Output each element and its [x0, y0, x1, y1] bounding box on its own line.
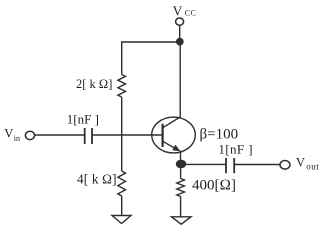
wire emitter node to C2: [181, 163, 226, 165]
ground left: [112, 216, 131, 224]
node Vout terminal: [280, 161, 290, 170]
node Vin terminal: [25, 131, 34, 139]
wire C1 to transistor base: [92, 134, 163, 136]
svg-text:in: in: [14, 134, 20, 143]
label 1[nF] input: [67, 111, 99, 126]
resistor 4k zigzag: [118, 171, 126, 196]
wire top rail down to R1: [121, 41, 123, 74]
wire R2 bottom to ground: [121, 196, 123, 216]
svg-text:out: out: [306, 161, 319, 171]
wire top rail horizontal: [122, 41, 180, 43]
label Vout: [296, 155, 319, 171]
svg-text:V: V: [296, 155, 305, 169]
transistor Q1 collector stroke: [163, 117, 181, 128]
svg-text:CC: CC: [185, 9, 196, 18]
label 400[Ohm]: [192, 178, 236, 194]
wire R3 to ground: [180, 197, 182, 217]
junction dot at VCC rail: [177, 38, 183, 44]
wire emitter down to node: [180, 151, 182, 165]
resistor 2k zigzag: [118, 75, 126, 98]
resistor 400 ohm zigzag: [177, 179, 185, 197]
capacitor C2 output 1nF: [226, 158, 234, 173]
wire C2 to Vout terminal: [234, 164, 280, 166]
transistor Q1 emitter stroke with arrow: [163, 141, 179, 150]
ground right: [172, 217, 192, 224]
wire R1 bottom to base node and down to R2: [121, 97, 123, 171]
label beta=100: [200, 126, 239, 142]
wire VCC terminal to junction: [179, 25, 181, 39]
wire collector up to rail: [179, 42, 181, 118]
svg-text:β=100: β=100: [200, 126, 239, 142]
transistor Q1 body: [152, 117, 196, 153]
svg-text:V: V: [4, 127, 13, 141]
wire Vin to C1: [35, 134, 84, 136]
label 1[nF] output: [218, 142, 253, 157]
label 4[kOhm]: [77, 171, 117, 186]
label Vin: [4, 127, 20, 144]
capacitor C1 input 1nF: [85, 128, 92, 144]
label VCC: [173, 3, 197, 18]
svg-text:400[Ω]: 400[Ω]: [192, 178, 236, 194]
svg-text:2[ k Ω]: 2[ k Ω]: [76, 77, 112, 91]
transistor Q1 base bar: [162, 124, 164, 147]
svg-text:V: V: [173, 3, 183, 18]
svg-text:1[nF ]: 1[nF ]: [67, 111, 99, 126]
wire emitter node down to R3: [180, 164, 182, 179]
label 2[kOhm]: [76, 77, 112, 91]
svg-text:1[nF ]: 1[nF ]: [218, 142, 253, 157]
svg-text:4[ k Ω]: 4[ k Ω]: [77, 171, 117, 186]
junction dot emitter node: [177, 160, 186, 167]
node VCC terminal: [176, 18, 184, 25]
